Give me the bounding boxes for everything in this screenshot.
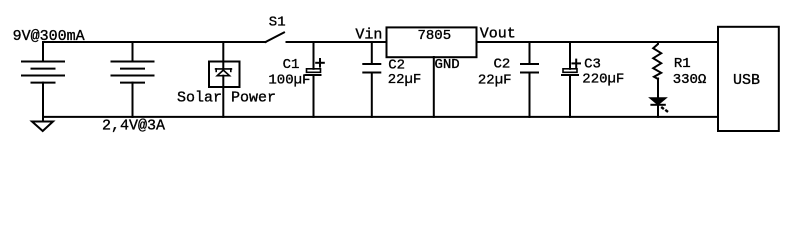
svg-text:22µF: 22µF [478,72,512,88]
svg-text:S1: S1 [269,14,286,30]
svg-text:Solar Power: Solar Power [177,90,276,107]
svg-text:C1: C1 [283,57,300,73]
svg-text:Vout: Vout [480,26,516,43]
svg-text:220µF: 220µF [582,72,624,88]
svg-text:R1: R1 [674,56,691,72]
svg-text:Vin: Vin [355,27,382,44]
svg-text:GND: GND [435,57,460,73]
svg-text:USB: USB [733,72,760,89]
svg-text:7805: 7805 [418,28,452,44]
svg-text:C2: C2 [494,57,511,73]
svg-text:2,4V@3A: 2,4V@3A [102,118,165,135]
svg-text:9V@300mA: 9V@300mA [13,28,85,45]
svg-text:330Ω: 330Ω [673,72,707,88]
svg-text:C3: C3 [584,57,601,73]
svg-text:100µF: 100µF [268,72,310,88]
svg-text:22µF: 22µF [388,72,422,88]
